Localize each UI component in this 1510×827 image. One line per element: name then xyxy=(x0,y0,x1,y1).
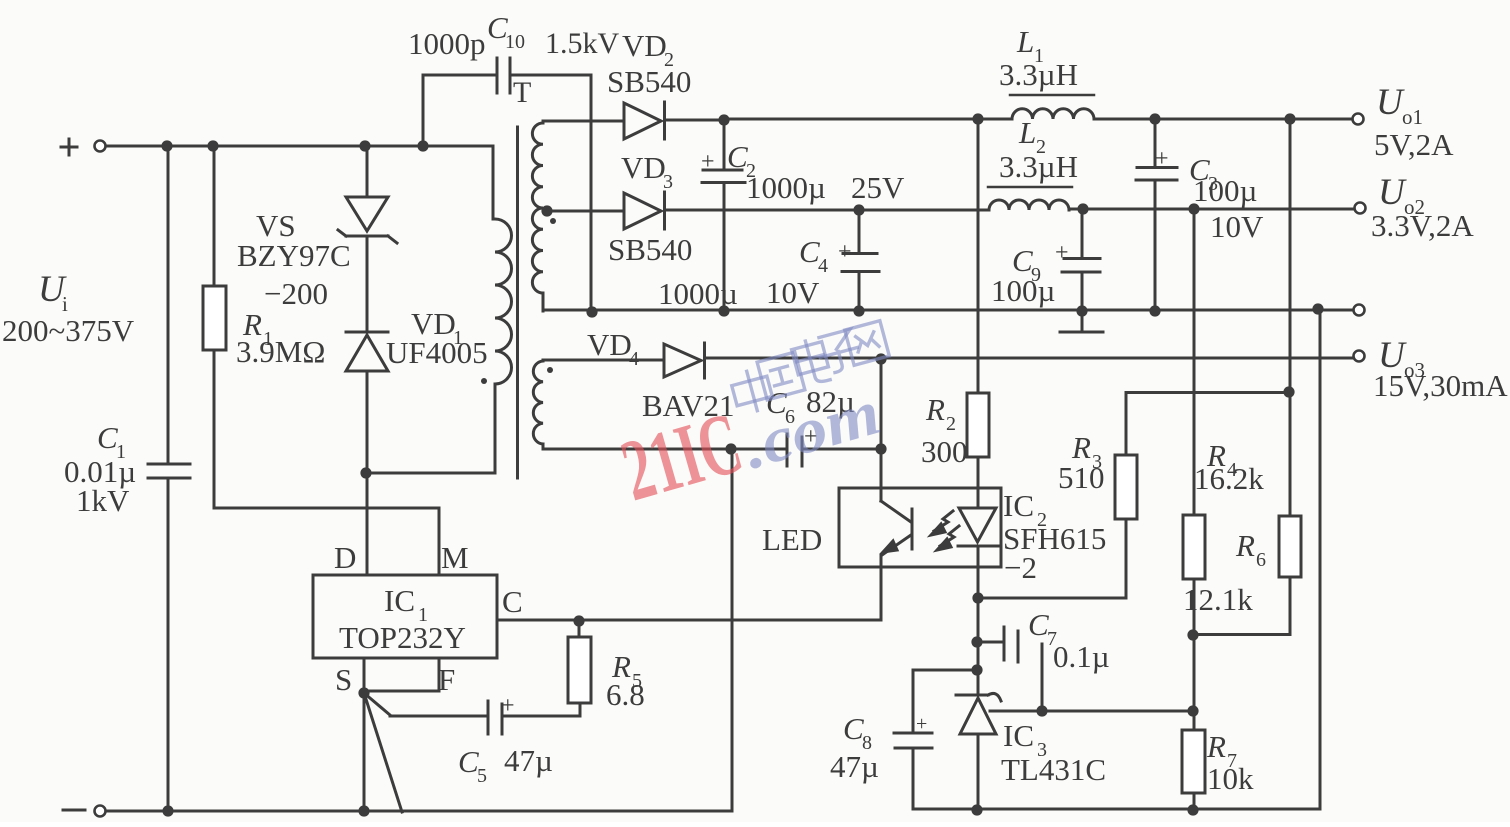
svg-text:12.1k: 12.1k xyxy=(1183,582,1253,617)
svg-text:R: R xyxy=(1235,528,1255,563)
svg-text:1000p: 1000p xyxy=(408,26,486,61)
svg-text:10V: 10V xyxy=(766,275,820,310)
svg-text:SB540: SB540 xyxy=(607,64,691,99)
svg-text:3.3µH: 3.3µH xyxy=(999,57,1078,92)
svg-text:200~375V: 200~375V xyxy=(2,313,135,348)
svg-text:6: 6 xyxy=(1256,549,1266,571)
svg-text:1kV: 1kV xyxy=(76,483,130,518)
svg-text:VD: VD xyxy=(622,28,667,63)
svg-text:C: C xyxy=(1028,607,1049,642)
svg-text:47µ: 47µ xyxy=(504,743,553,778)
svg-text:+: + xyxy=(501,693,515,719)
svg-text:1.5kV: 1.5kV xyxy=(545,27,620,60)
svg-text:U: U xyxy=(1376,82,1405,123)
svg-text:3.3V,2A: 3.3V,2A xyxy=(1371,208,1474,243)
svg-text:C: C xyxy=(502,584,523,619)
svg-text:6.8: 6.8 xyxy=(606,677,645,712)
svg-text:C: C xyxy=(843,711,864,746)
svg-text:M: M xyxy=(441,540,469,575)
svg-text:5: 5 xyxy=(477,765,487,787)
svg-text:16.2k: 16.2k xyxy=(1194,461,1264,496)
svg-text:TL431C: TL431C xyxy=(1001,752,1106,787)
svg-text:10: 10 xyxy=(505,31,525,53)
svg-text:1000µ: 1000µ xyxy=(746,170,826,205)
svg-text:R: R xyxy=(1206,729,1226,764)
svg-text:U: U xyxy=(1378,172,1407,213)
svg-text:+: + xyxy=(838,239,852,265)
svg-text:IC: IC xyxy=(384,583,415,618)
svg-text:o1: o1 xyxy=(1402,105,1423,129)
svg-text:10k: 10k xyxy=(1207,761,1254,796)
svg-text:D: D xyxy=(334,540,356,575)
svg-text:T: T xyxy=(513,76,531,109)
svg-text:R: R xyxy=(925,392,945,427)
svg-text:L: L xyxy=(1016,24,1034,59)
svg-text:IC: IC xyxy=(1003,488,1034,523)
svg-text:10V: 10V xyxy=(1210,209,1264,244)
svg-text:BZY97C: BZY97C xyxy=(237,238,351,273)
svg-text:TOP232Y: TOP232Y xyxy=(339,620,466,655)
svg-text:2: 2 xyxy=(946,413,956,435)
svg-text:3: 3 xyxy=(663,171,673,193)
svg-text:100µ: 100µ xyxy=(991,273,1055,308)
svg-text:4: 4 xyxy=(629,348,639,370)
svg-text:3.3µH: 3.3µH xyxy=(999,149,1078,184)
svg-text:C: C xyxy=(97,420,118,455)
svg-text:C: C xyxy=(799,234,820,269)
svg-text:C: C xyxy=(458,744,479,779)
svg-text:47µ: 47µ xyxy=(830,749,879,784)
svg-text:LED: LED xyxy=(762,522,822,557)
svg-text:VD: VD xyxy=(587,327,632,362)
svg-text:1000µ: 1000µ xyxy=(658,276,738,311)
svg-text:+: + xyxy=(1055,240,1069,266)
svg-text:510: 510 xyxy=(1058,460,1105,495)
svg-text:0.1µ: 0.1µ xyxy=(1053,639,1110,674)
svg-text:15V,30mA: 15V,30mA xyxy=(1373,368,1508,403)
svg-text:SB540: SB540 xyxy=(608,232,692,267)
svg-text:L: L xyxy=(1018,115,1036,150)
svg-text:3.9MΩ: 3.9MΩ xyxy=(236,334,325,369)
svg-text:−2: −2 xyxy=(1004,550,1037,585)
svg-text:100µ: 100µ xyxy=(1193,173,1257,208)
svg-text:5V,2A: 5V,2A xyxy=(1374,127,1454,162)
svg-text:S: S xyxy=(335,662,352,697)
svg-text:F: F xyxy=(438,662,455,697)
svg-text:4: 4 xyxy=(818,255,828,277)
svg-text:25V: 25V xyxy=(851,170,905,205)
svg-text:+: + xyxy=(701,149,715,175)
svg-text:UF4005: UF4005 xyxy=(386,335,488,370)
svg-text:C: C xyxy=(727,139,748,174)
svg-text:−200: −200 xyxy=(264,276,328,311)
svg-text:IC: IC xyxy=(1003,718,1034,753)
svg-text:300: 300 xyxy=(921,434,968,469)
svg-text:+: + xyxy=(1155,146,1169,172)
svg-text:+: + xyxy=(916,713,927,735)
svg-text:VD: VD xyxy=(621,150,666,185)
